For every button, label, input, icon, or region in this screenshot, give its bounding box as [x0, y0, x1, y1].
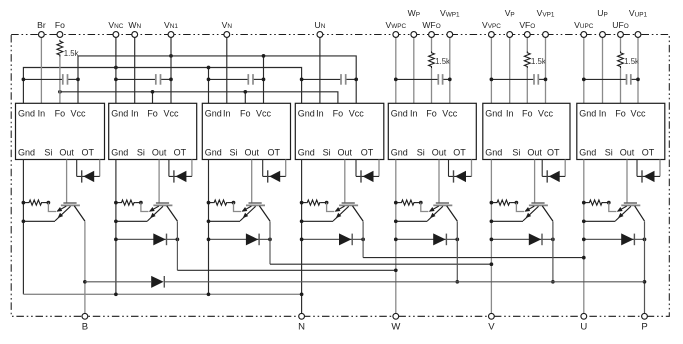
wire Gnd bus (VNC ground to N-side drivers)	[23, 66, 301, 104]
svg-text:P: P	[641, 321, 647, 332]
svg-text:Si: Si	[137, 147, 145, 157]
terminal VN	[222, 20, 233, 38]
terminal N	[298, 313, 305, 332]
svg-text:Gnd: Gnd	[579, 147, 596, 157]
wire N rail	[23, 292, 303, 296]
wire WP to In5	[413, 37, 415, 103]
freewheel diode D9	[114, 233, 179, 245]
wire Vcc bus (VN1 supply to N-side drivers)	[78, 54, 356, 103]
svg-text:Si: Si	[417, 147, 425, 157]
svg-text:OT: OT	[642, 147, 655, 157]
driver IC U1	[16, 103, 105, 159]
svg-text:Gnd: Gnd	[18, 147, 35, 157]
svg-text:Gnd: Gnd	[111, 147, 128, 157]
IGBT Q2	[148, 203, 178, 221]
wire Si4 sense	[327, 203, 335, 212]
capacitor C5 (Vcc-Gnd of driver U5)	[394, 74, 452, 85]
resistor Rg3 (gate)	[209, 200, 236, 205]
svg-text:Gnd: Gnd	[205, 109, 222, 119]
diode D7 (OT loop)	[637, 160, 660, 183]
wire Gnd7 below driver	[582, 160, 586, 314]
svg-text:Fo: Fo	[55, 20, 65, 30]
terminal Fo	[55, 20, 65, 38]
capacitor C1 (Vcc-Gnd of driver U1)	[22, 74, 80, 85]
wire Out7 gate drive	[626, 160, 628, 203]
svg-text:Out: Out	[152, 147, 167, 157]
IGBT Q1	[55, 203, 85, 221]
wire P rail	[85, 281, 645, 283]
svg-text:Vcc: Vcc	[630, 109, 646, 119]
svg-text:Vcc: Vcc	[70, 109, 86, 119]
svg-text:N: N	[298, 321, 305, 332]
wire VN1 to Vcc2	[170, 37, 172, 103]
IGBT Q3	[240, 203, 270, 221]
svg-text:Out: Out	[59, 147, 74, 157]
diode D6 (OT loop)	[542, 160, 565, 183]
svg-text:In: In	[316, 109, 324, 119]
wire Gnd6 below driver	[490, 160, 494, 314]
wire Si7 sense	[609, 203, 617, 212]
wire Out4 gate drive	[344, 160, 346, 203]
svg-text:W: W	[391, 321, 400, 332]
terminal WP	[408, 8, 420, 37]
svg-text:Out: Out	[244, 147, 259, 157]
svg-text:Fo: Fo	[522, 109, 533, 119]
svg-text:Gnd: Gnd	[298, 109, 315, 119]
wire Gnd1 below driver	[22, 160, 26, 295]
wire Fo bus (fault output common)	[58, 90, 338, 103]
wire UN to In4	[319, 37, 321, 103]
svg-text:Gnd: Gnd	[485, 147, 502, 157]
wire Si3 sense	[234, 203, 242, 212]
terminal U	[580, 313, 587, 332]
svg-text:Br: Br	[37, 20, 46, 30]
terminal VWPC	[385, 20, 406, 38]
wire emitter return to Gnd2	[116, 220, 148, 222]
svg-text:Fo: Fo	[333, 109, 344, 119]
svg-text:OT: OT	[453, 147, 466, 157]
freewheel diode D14	[582, 233, 646, 245]
wire emitter return to Gnd1	[23, 220, 55, 222]
wire emitter return to Gnd7	[584, 220, 616, 222]
wire Out5 gate drive	[438, 160, 440, 203]
svg-text:1.5k: 1.5k	[624, 57, 639, 66]
wire Q1 collector to B	[83, 221, 87, 313]
svg-text:Gnd: Gnd	[205, 147, 222, 157]
wire Q6 collector to P rail	[551, 221, 555, 283]
driver IC U7	[577, 103, 665, 159]
freewheel diode D11	[300, 233, 365, 245]
wire Gnd5 below driver	[394, 160, 398, 314]
wire Q2 collector to W (phase bus)	[177, 221, 397, 272]
capacitor C6 (Vcc-Gnd of driver U6)	[490, 74, 548, 85]
svg-text:In: In	[410, 109, 418, 119]
terminal VVPC	[482, 20, 501, 38]
wire emitter return to Gnd4	[302, 220, 334, 222]
driver IC U3	[202, 103, 290, 159]
svg-text:Gnd: Gnd	[391, 109, 408, 119]
svg-text:Fo: Fo	[615, 109, 626, 119]
terminal B	[82, 313, 88, 332]
svg-text:Vcc: Vcc	[538, 109, 554, 119]
svg-text:In: In	[131, 109, 139, 119]
svg-text:Vcc: Vcc	[163, 109, 179, 119]
terminal Br	[37, 20, 46, 38]
wire Out2 gate drive	[158, 160, 160, 203]
wire Gnd2 below driver	[114, 160, 118, 295]
freewheel diode D10	[207, 233, 272, 245]
wire emitter return to Gnd5	[396, 220, 428, 222]
svg-text:B: B	[82, 321, 88, 332]
diode D5 (OT loop)	[449, 160, 472, 183]
diode D2 (OT loop)	[169, 160, 192, 183]
svg-text:1.5k: 1.5k	[64, 49, 79, 58]
terminal W	[391, 313, 400, 332]
brake diode D8 (B to P)	[151, 276, 164, 288]
wire Out3 gate drive	[251, 160, 253, 203]
wire VVP1 to Vcc6	[545, 37, 547, 103]
wire VWPC to Gnd5	[395, 37, 397, 103]
resistor Rg5 (gate)	[396, 200, 423, 205]
svg-text:In: In	[223, 109, 231, 119]
freewheel diode D13	[490, 233, 555, 245]
terminal VUPC	[574, 20, 594, 38]
resistor 1.5k (WFo pull-up)	[429, 37, 435, 103]
svg-text:In: In	[38, 109, 46, 119]
svg-text:In: In	[506, 109, 514, 119]
wire Q3 collector to V (phase bus)	[270, 221, 493, 266]
svg-text:1.5k: 1.5k	[435, 57, 450, 66]
IGBT Q6	[523, 203, 553, 221]
capacitor C2 (Vcc-Gnd of driver U2)	[114, 74, 173, 85]
svg-text:Fo: Fo	[55, 109, 66, 119]
svg-text:OT: OT	[174, 147, 187, 157]
wire VUP1 to Vcc7	[637, 37, 639, 103]
resistor Rg1 (gate)	[23, 200, 50, 205]
svg-text:Vcc: Vcc	[256, 109, 272, 119]
resistor Rg4 (gate)	[302, 200, 329, 205]
svg-text:Gnd: Gnd	[18, 109, 35, 119]
svg-text:OT: OT	[81, 147, 94, 157]
svg-text:OT: OT	[267, 147, 280, 157]
diode D1 (OT loop)	[77, 160, 100, 183]
svg-text:OT: OT	[361, 147, 374, 157]
svg-text:Out: Out	[432, 147, 447, 157]
terminal VP	[505, 8, 515, 37]
terminal UP	[597, 8, 607, 37]
svg-text:Si: Si	[605, 147, 613, 157]
diode D3 (OT loop)	[263, 160, 286, 183]
diode D4 (OT loop)	[356, 160, 379, 183]
wire Out6 gate drive	[534, 160, 536, 203]
driver IC U5	[388, 103, 476, 159]
wire Si1 sense	[48, 203, 56, 212]
wire UP to In7	[602, 37, 604, 103]
terminal VNC	[108, 20, 123, 38]
wire Q7 collector to P terminal	[643, 221, 647, 313]
terminal WN	[128, 20, 141, 38]
svg-text:Fo: Fo	[147, 109, 158, 119]
wire VP to In6	[509, 37, 511, 103]
resistor 1.5k (VFo pull-up)	[524, 37, 530, 103]
IGBT Q4	[333, 203, 363, 221]
terminal WFO	[422, 20, 440, 38]
terminal P	[641, 313, 647, 332]
svg-text:Vcc: Vcc	[442, 109, 458, 119]
svg-text:Gnd: Gnd	[298, 147, 315, 157]
wire Q4 collector to U (phase bus)	[363, 221, 586, 259]
svg-text:Out: Out	[620, 147, 635, 157]
resistor Rg2 (gate)	[116, 200, 143, 205]
terminal UFO	[612, 20, 628, 38]
svg-text:OT: OT	[547, 147, 560, 157]
terminal V	[488, 313, 495, 332]
freewheel diode D12	[394, 233, 459, 245]
terminal VN1	[164, 20, 178, 38]
svg-text:Gnd: Gnd	[391, 147, 408, 157]
wire VWP1 to Vcc5	[449, 37, 451, 103]
svg-text:Si: Si	[512, 147, 520, 157]
wire VN to In3	[226, 37, 228, 103]
svg-text:Out: Out	[527, 147, 542, 157]
wire VNC drop	[115, 37, 117, 103]
driver IC U4	[295, 103, 384, 159]
svg-text:In: In	[599, 109, 607, 119]
wire Si6 sense	[516, 203, 524, 212]
IGBT Q7	[615, 203, 644, 221]
wire VVPC to Gnd6	[490, 37, 492, 103]
terminal VVP1	[537, 8, 555, 37]
svg-text:Vcc: Vcc	[349, 109, 365, 119]
capacitor C7 (Vcc-Gnd of driver U7)	[582, 74, 640, 85]
resistor 1.5k (UFo pull-up)	[618, 37, 624, 103]
svg-text:U: U	[580, 321, 587, 332]
wire emitter return to Gnd3	[209, 220, 241, 222]
svg-text:Out: Out	[338, 147, 353, 157]
svg-text:Gnd: Gnd	[485, 109, 502, 119]
driver IC U6	[483, 103, 570, 159]
svg-text:1.5k: 1.5k	[531, 57, 546, 66]
module package outline (dash-dot border)	[11, 35, 669, 317]
wire VUPC to Gnd7	[583, 37, 585, 103]
capacitor C3 (Vcc-Gnd of driver U3)	[207, 74, 266, 85]
terminal VWP1	[440, 8, 460, 37]
svg-text:Si: Si	[323, 147, 331, 157]
wire emitter return to Gnd6	[491, 220, 523, 222]
wire Out1 gate drive	[66, 160, 68, 203]
driver IC U2	[109, 103, 197, 159]
svg-text:Si: Si	[44, 147, 52, 157]
svg-text:Gnd: Gnd	[111, 109, 128, 119]
terminal VFO	[519, 20, 535, 38]
wire Q5 collector to P rail	[455, 221, 459, 283]
wire WN to In2	[134, 37, 136, 103]
wire Si2 sense	[141, 203, 149, 212]
wire Gnd3 below driver	[207, 160, 211, 295]
svg-text:Fo: Fo	[426, 109, 437, 119]
capacitor C4 (Vcc-Gnd of driver U4)	[300, 74, 358, 85]
resistor Rg7 (gate)	[584, 200, 611, 205]
svg-text:V: V	[488, 321, 495, 332]
terminal VUP1	[629, 8, 648, 37]
wire Gnd4 below driver	[300, 160, 304, 314]
resistor 1.5k (Fo pull-up)	[57, 40, 63, 104]
IGBT Q5	[427, 203, 457, 221]
resistor Rg6 (gate)	[491, 200, 518, 205]
svg-text:Si: Si	[229, 147, 237, 157]
wire Br to In1	[40, 37, 42, 103]
svg-text:Fo: Fo	[240, 109, 251, 119]
wire Si5 sense	[421, 203, 429, 212]
terminal UN	[314, 20, 325, 38]
svg-text:Gnd: Gnd	[579, 109, 596, 119]
